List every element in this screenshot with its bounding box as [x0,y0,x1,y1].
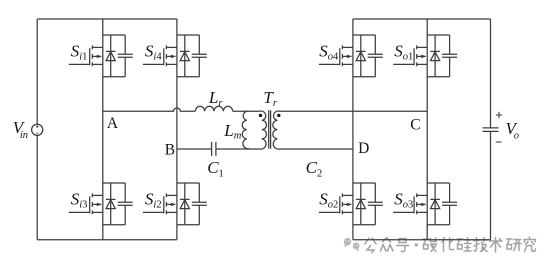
svg-text:C2: C2 [306,158,323,180]
watermark icon: two chat bubbles [344,238,360,251]
svg-text:C: C [410,116,420,133]
left bridge leg 1 [102,19,104,240]
svg-text:Si4: Si4 [145,42,162,63]
transformer core lines [269,110,271,149]
left bridge bottom rail [37,239,177,241]
primary dot [259,114,262,117]
wires & components (dark) [32,19,503,240]
output capacitor plates [483,128,499,131]
node A wire with hop over leg 2 [103,108,196,111]
svg-text:So3: So3 [394,190,413,211]
wire C1 to transformer bottom [216,148,260,150]
svg-text:C1: C1 [207,158,224,180]
magnetizing inductor L_m coil [242,111,249,149]
svg-text:o: o [514,130,519,141]
svg-text:Lm: Lm [223,121,241,142]
svg-text:So4: So4 [319,42,339,63]
switch S_i4 [143,35,207,77]
switch S_o4 [319,35,383,77]
svg-text:So1: So1 [394,42,413,63]
right bridge bottom rail [353,239,491,241]
node C wire (secondary top to leg 4) [280,110,428,112]
switch S_o2 [319,183,383,225]
V_in plus mark [36,125,39,128]
output wire lower [490,132,492,240]
transformer primary winding [260,111,267,149]
svg-text:Tr: Tr [263,88,277,109]
svg-text:B: B [165,141,175,158]
input left wire (upper) [36,19,38,124]
output wire upper [490,19,492,128]
left bridge top rail [37,18,177,20]
svg-text:Si1: Si1 [71,42,88,63]
output plus sign [496,112,502,118]
V_in minus mark [36,132,39,134]
svg-text:Lr: Lr [208,88,223,109]
node B wire (B to C1) [177,148,212,150]
capacitor C1 plates [212,142,216,156]
watermark text: 公众号·碳化硅技术研究 (stroke approximations) [365,237,536,253]
svg-text:So2: So2 [319,190,338,211]
svg-text:D: D [358,140,369,157]
node D wire (secondary bottom to leg 3) [280,148,353,150]
transformer secondary winding [273,111,280,149]
svg-text:Si3: Si3 [71,190,88,211]
right bridge leg 3 [352,19,354,240]
right bridge top rail [353,18,491,20]
switch S_i3 [69,183,133,225]
inductor L_r coil [195,106,232,111]
switch S_i1 [69,35,133,77]
switch S_o1 [393,35,457,77]
wire L_r to transformer [233,110,260,112]
input left wire (lower) [36,135,38,239]
voltage source V_in circle [32,124,43,135]
output minus sign [496,141,502,143]
right bridge leg 4 [426,19,428,240]
switch S_o3 [393,183,457,225]
svg-text:A: A [107,115,119,132]
svg-text:in: in [20,130,28,141]
left bridge leg 2 [176,19,178,240]
switch S_i2 [143,183,207,225]
secondary dot [277,114,280,117]
svg-text:Si2: Si2 [145,190,162,211]
